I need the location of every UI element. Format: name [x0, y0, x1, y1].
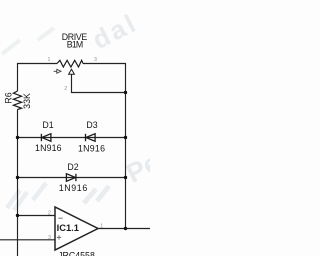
svg-text:2: 2: [64, 86, 67, 92]
op-amp designator IC1.1: [57, 222, 79, 233]
junction: right rail / D3 row: [124, 136, 127, 139]
potentiometer wiper arrow: [69, 69, 75, 74]
watermark fragment top-right: [87, 7, 142, 55]
wire: D2 net row: [17, 177, 126, 179]
junction: wiper to right rail: [124, 91, 127, 94]
svg-text:B1M: B1M: [67, 39, 84, 49]
D1 name: [42, 120, 53, 130]
svg-text:R6: R6: [4, 92, 14, 103]
watermark streak marks mid-left: [7, 183, 46, 210]
wire: D1/D3 net row: [17, 137, 126, 139]
svg-text:1: 1: [100, 223, 103, 229]
diode D1: [41, 134, 51, 142]
R6 name label (rotated): [4, 92, 14, 103]
D2 value 1N916: [59, 183, 88, 193]
R6 value 33K (rotated): [22, 93, 32, 109]
pot pin 1: [48, 57, 51, 63]
diode D3: [86, 134, 96, 142]
svg-text:1N916: 1N916: [59, 183, 88, 193]
diode D2: [66, 174, 76, 182]
watermark streaks top-left: [2, 28, 54, 54]
wire: pot pin3 to right rail corner: [83, 63, 126, 65]
junction: left rail / D2 row: [16, 176, 19, 179]
op-amp minus input mark: [58, 217, 62, 219]
resistor R6: [13, 91, 21, 110]
watermark streak marks near op-amp: [84, 186, 109, 203]
wire: op-amp output net to right edge: [98, 228, 150, 230]
wire: pot wiper pin2 down and right to rail: [72, 74, 126, 92]
wire: left rail upper (to R6): [17, 63, 19, 91]
pot pin 3: [94, 57, 97, 63]
junction: right rail / D2 row: [124, 176, 127, 179]
svg-text:1N916: 1N916: [35, 143, 62, 153]
wire: inverting input net (pin 2): [17, 215, 55, 217]
svg-text:3: 3: [94, 57, 97, 63]
D3 value 1N916: [78, 144, 105, 154]
svg-text:33K: 33K: [22, 93, 32, 109]
watermark fragment bottom-right "Pe": [121, 147, 164, 189]
junction: left rail / pin2 net: [16, 214, 19, 217]
svg-text:D1: D1: [42, 120, 53, 130]
op-amp pin 1: [100, 223, 103, 229]
op-amp IC1.1: [55, 207, 98, 250]
pot label DRIVE: [62, 32, 88, 42]
svg-text:IC1.1: IC1.1: [57, 222, 79, 233]
wire: left rail lower (R6 to bottom edge): [17, 110, 19, 256]
wire: top net from left rail to pot pin1: [17, 63, 57, 65]
junction: output / right rail: [124, 227, 127, 230]
svg-text:1N916: 1N916: [78, 144, 105, 154]
svg-text:dal: dal: [87, 7, 142, 55]
svg-text:1: 1: [48, 57, 51, 63]
svg-text:D3: D3: [86, 120, 97, 130]
potentiometer rotation indicator: [54, 69, 61, 73]
pot value B1M: [67, 39, 84, 49]
wire: right rail: [125, 63, 127, 229]
pot pin 2: [64, 86, 67, 92]
svg-text:D2: D2: [67, 162, 78, 172]
potentiometer DRIVE B1M: [57, 60, 83, 67]
D1 value 1N916: [35, 143, 62, 153]
svg-text:2: 2: [48, 211, 51, 217]
wire: non-inverting input net (pin 3) from left edge: [0, 239, 55, 241]
op-amp part value JRC4558 (clipped at bottom): [58, 251, 95, 256]
junction: left rail / D1 row: [16, 136, 19, 139]
D3 name: [86, 120, 97, 130]
op-amp pin 2: [48, 211, 51, 217]
op-amp plus input mark: [57, 235, 61, 239]
op-amp pin 3: [48, 235, 51, 241]
svg-text:JRC4558: JRC4558: [58, 251, 95, 256]
svg-text:3: 3: [48, 235, 51, 241]
D2 name: [67, 162, 78, 172]
